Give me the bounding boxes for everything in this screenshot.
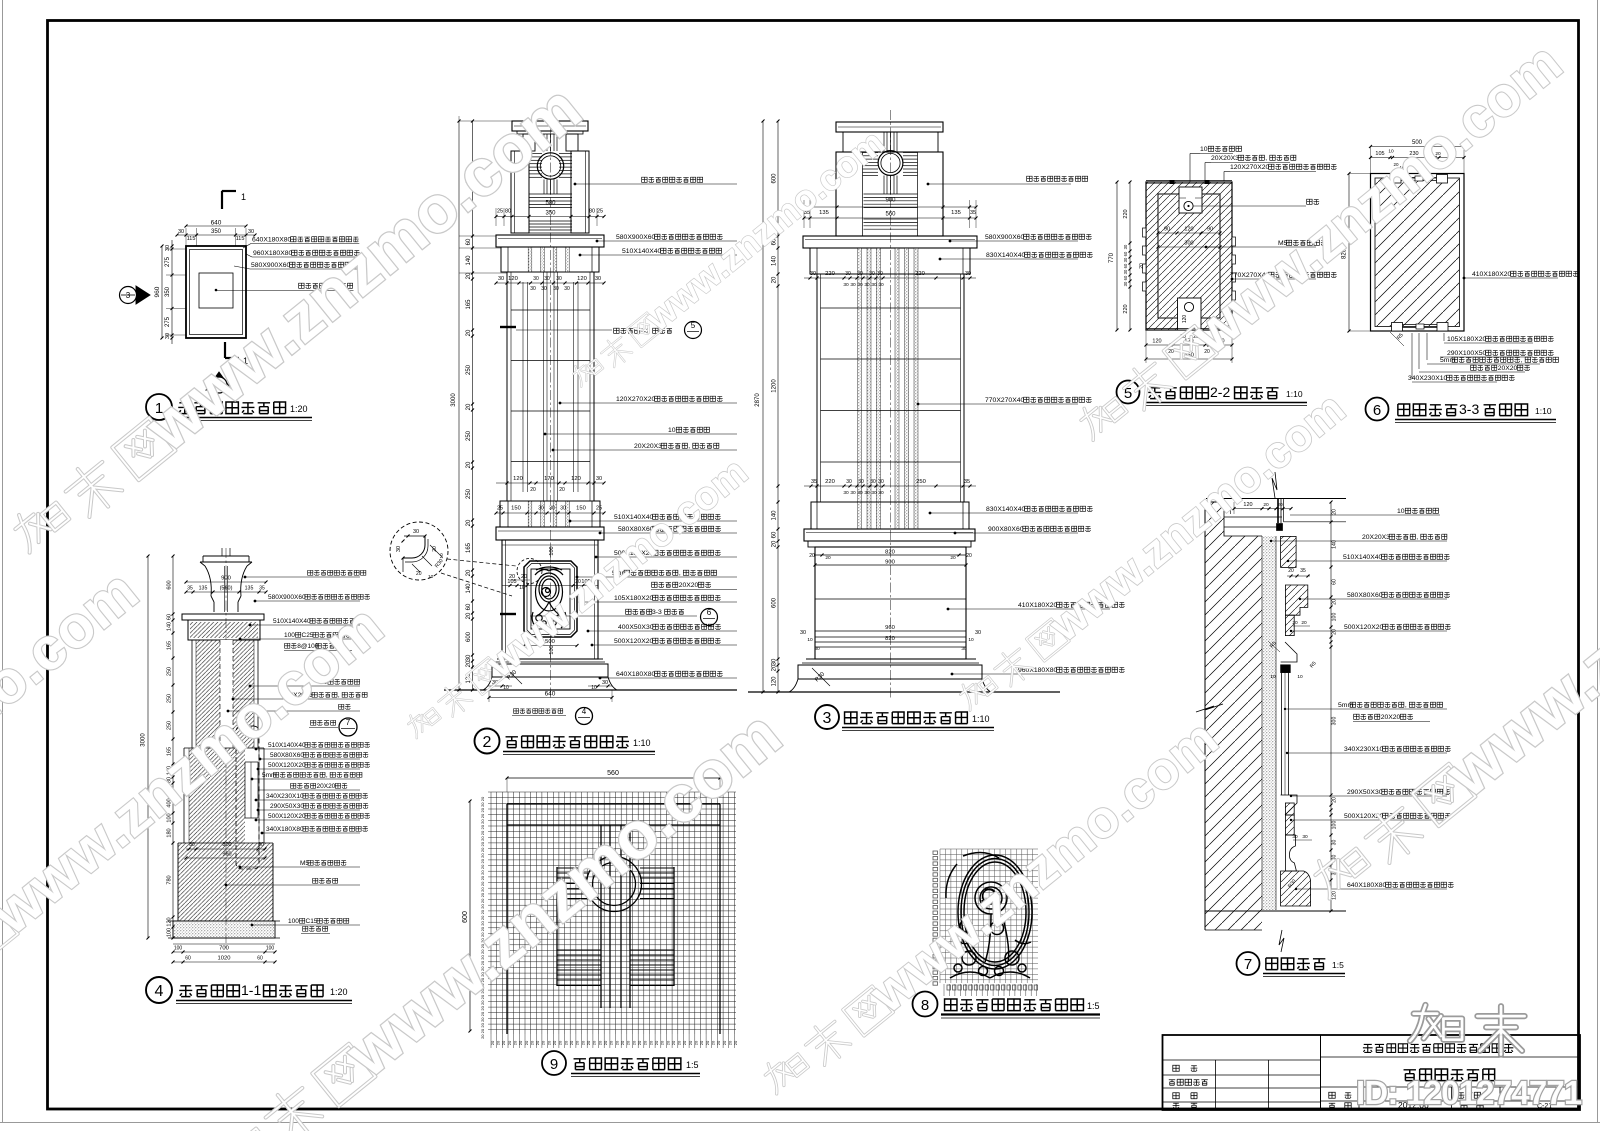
svg-text:30: 30 [814,646,820,652]
svg-text:30: 30 [498,276,504,282]
svg-text:10: 10 [968,637,974,643]
view2 left dimension chain outer 3000 [458,121,460,690]
view2 dim row at shaft bottom [496,482,604,484]
svg-text:5mm: 5mm [262,772,276,779]
svg-text:,: , [326,772,328,779]
svg-text:600: 600 [167,580,173,589]
svg-text:25: 25 [497,209,503,215]
view2 plinth R30 label [504,666,522,684]
view2 title text te-se-deng-zhu-zheng-li-mian-tu 1:10 [506,736,629,748]
view2 leader 120X270X20 facing [559,402,562,405]
view5 title circle 5 [1117,381,1140,404]
view1 top dim 640 [186,225,246,227]
svg-text:20: 20 [637,1040,642,1045]
outer thin page edge lines [2,0,4,1123]
svg-text:30: 30 [530,286,536,292]
watermark band E center-right [949,382,1355,724]
view4 bottom dim rows [173,951,275,953]
view2 leader 500X120X20 facing2 [591,644,594,647]
view6 top dim 500 [1371,146,1465,148]
svg-text:20: 20 [480,853,485,858]
svg-text:1:10: 1:10 [1535,406,1552,416]
svg-text:350: 350 [165,286,171,297]
view7 moulding 290 band [1285,803,1294,815]
view7 leader 500X120X20 [1290,630,1292,632]
svg-text:640X180X80: 640X180X80 [1347,882,1387,889]
svg-text:6: 6 [707,608,712,617]
svg-text:25: 25 [497,506,503,512]
svg-text:30: 30 [850,282,856,288]
view6 leader 290X100X50 [1440,356,1533,358]
view2 shaft outer walls [506,272,508,501]
svg-text:60: 60 [466,238,472,245]
svg-text:30: 30 [466,654,472,661]
view1 leader finished lamp shade [215,289,218,292]
svg-text:120X270X20: 120X270X20 [616,396,656,403]
svg-text:20: 20 [496,1040,501,1045]
view2 head belt stripes lower [529,220,572,222]
svg-text:20: 20 [490,1040,495,1045]
svg-text:30: 30 [857,271,863,277]
svg-text:20: 20 [535,1040,540,1045]
svg-text:,: , [338,692,340,699]
svg-text:140: 140 [466,583,472,594]
view6 interior hatch [1376,179,1460,327]
svg-text:30: 30 [843,282,849,288]
view2 center axis dash-dot line [550,110,552,700]
view3 pedestal [815,547,966,659]
svg-text:30: 30 [541,286,547,292]
view6 leader 105X180X20 [1444,342,1533,344]
view2 shaft inner panel verticals [522,282,524,492]
svg-text:35: 35 [1300,568,1306,574]
svg-text:20: 20 [546,1040,551,1045]
view4 leader 290X50X30 [257,809,260,812]
svg-text:20: 20 [432,546,438,552]
view3 leader 830X140X40 facing [939,258,942,261]
svg-text:90: 90 [1164,227,1170,233]
svg-text:3000: 3000 [141,733,147,747]
view1 leader 640X180X80 gold trim [243,244,251,249]
view5 title underline [1146,402,1307,404]
svg-text:140: 140 [167,622,173,631]
svg-text:120: 120 [772,676,778,687]
view7 leader 20X20X3 tube [1270,540,1272,542]
svg-text:30: 30 [869,271,875,277]
view5 bottom dim rows [1146,344,1232,346]
view2 head stem below circle [543,180,545,195]
svg-text:60: 60 [772,531,778,538]
view3 title underline [842,727,994,729]
view2 panel ornament scrolls [532,567,566,628]
svg-text:30: 30 [595,276,601,282]
svg-text:20: 20 [1332,797,1338,803]
title block label xiao he [1173,1093,1179,1099]
svg-text:275: 275 [165,316,171,327]
svg-text:30: 30 [1123,269,1128,274]
svg-text:30: 30 [857,282,863,288]
view4 leader welded tube [258,789,360,791]
svg-text:20: 20 [665,1040,670,1045]
view7 bottom break spike [1279,930,1284,952]
svg-text:580X900X60: 580X900X60 [268,594,306,601]
svg-text:20: 20 [716,1040,721,1045]
view5 outer rect [1146,182,1232,330]
svg-text:ID: 1201274771: ID: 1201274771 [1356,1074,1582,1111]
svg-text:350: 350 [545,211,556,217]
view3 head stripes beside circle [863,152,879,154]
svg-text:2870: 2870 [755,393,761,407]
svg-text:30: 30 [850,490,856,496]
view4 leader 340X230X10 [255,799,258,802]
view2 leader lamp tube [551,461,701,463]
svg-text:20: 20 [563,1040,568,1045]
view7 top dim row 120 20 20 [1234,508,1291,510]
svg-text:20: 20 [480,864,485,869]
svg-text:20: 20 [728,1040,733,1045]
svg-text:580X80X60: 580X80X60 [1347,592,1383,599]
svg-text:340X230X10: 340X230X10 [266,793,304,800]
svg-text:1:5: 1:5 [686,1060,699,1070]
view2 head belt stripes upper [529,193,572,195]
svg-text:800: 800 [222,842,231,848]
svg-text:580X80X60: 580X80X60 [270,752,304,759]
svg-text:20: 20 [688,1040,693,1045]
view4 title underline [176,1000,352,1002]
view2 cap neck left block [523,134,535,151]
svg-text:2: 2 [483,734,492,751]
view2 head right column [571,151,589,233]
view5 leader 770X270X40 facing [1231,278,1234,281]
svg-text:,: , [1405,702,1407,709]
svg-text:960: 960 [885,625,895,631]
view4 top dims 900 560 [186,581,266,583]
view2 head lamp circle [537,153,563,179]
view3 dim row below sub box [804,277,976,279]
view2 plinth mouldings [497,658,603,660]
svg-text:640X180X80: 640X180X80 [616,671,656,678]
svg-text:20: 20 [586,1040,591,1045]
svg-text:700: 700 [219,946,229,952]
view6 bottom leader drop lines [1411,333,1413,378]
svg-text:20: 20 [480,813,485,818]
view2 leader 10 thick stone [544,433,547,436]
view2 cap top plate [512,121,588,131]
view3 shaft [816,274,818,502]
view5 left dim chain 770 [1116,182,1118,330]
view2 ornate panel octagonal frame [524,561,577,637]
view2 left dimension chain segments [472,121,474,690]
svg-text:20: 20 [1332,509,1338,515]
svg-text:960X180X80: 960X180X80 [253,250,293,257]
svg-text:820: 820 [885,636,895,642]
view1 side section marker 3 diamond [136,286,150,304]
view8 gray grid [940,849,1038,983]
svg-text:140: 140 [772,510,778,521]
view4 slab under shade [182,614,264,620]
svg-text:100: 100 [266,946,275,952]
svg-text:10: 10 [428,574,434,580]
view5 inner rect [1158,194,1220,318]
title block drawing name te se deng zhu xiang tu [1404,1069,1495,1081]
view5 leader lamp tube [1193,205,1306,207]
svg-text:20: 20 [480,1022,485,1027]
title block she ji hao label [1458,1092,1481,1098]
view7 leader 5mm steel plate 2 lines [1284,708,1286,710]
title block outer box [1163,1035,1581,1110]
view7 base 640 band hatched [1281,871,1311,906]
svg-text:,: , [1521,357,1523,364]
title block label shen he [1173,1103,1180,1109]
svg-text:1:20: 1:20 [330,987,348,997]
view7 right finish slab top [1283,499,1285,522]
view4 dashed detail region box [236,726,259,869]
view7 leader 500X120X20 lower [1290,819,1292,821]
view4 leader 500X120X20 [257,768,260,771]
view2 leader section 3-3 callout [530,615,697,617]
svg-text:135: 135 [199,586,208,592]
svg-text:5mm: 5mm [1338,702,1353,709]
svg-text:,: , [688,443,690,450]
view3 sub box [810,248,970,274]
svg-text:20: 20 [660,1040,665,1045]
svg-text:20: 20 [558,1040,563,1045]
svg-text:340X230X10: 340X230X10 [1408,375,1448,382]
svg-text:275: 275 [165,256,171,267]
view2 head columns inner lines [514,151,516,233]
view7 leader 640X180X80 [1295,888,1297,890]
svg-text:20: 20 [529,1040,534,1045]
view1 top dim segments 30 115 350 115 30 [176,234,179,237]
svg-text:140: 140 [1332,540,1338,549]
svg-text:30: 30 [165,333,171,339]
svg-text:600: 600 [466,631,472,642]
svg-text:2-2: 2-2 [1210,384,1230,400]
view1 plan outer rect double line [186,246,246,338]
svg-text:400X50X30: 400X50X30 [618,624,654,631]
svg-text:120: 120 [577,276,587,282]
svg-text:3-3: 3-3 [1459,401,1479,417]
view6 leader 340X230X10 [1412,381,1497,383]
svg-text:10: 10 [1270,674,1276,680]
svg-text:120: 120 [167,917,173,926]
svg-text:30: 30 [877,271,883,277]
svg-text:20: 20 [552,1040,557,1045]
svg-text:30: 30 [961,646,967,652]
svg-text:100: 100 [174,946,183,952]
view9 title circle 9 [542,1051,566,1075]
svg-text:20: 20 [772,664,778,671]
svg-text:35: 35 [811,479,817,485]
view7 chamfer bottom of recess [1281,795,1297,815]
view7 moulding 510 band hatched [1281,536,1297,567]
svg-text:20: 20 [631,1040,636,1045]
svg-text:560: 560 [885,212,896,218]
view4 leader 100 C15 concrete [251,924,254,927]
view4 leader M5 mortar [239,866,242,869]
view4 title text [179,985,239,997]
svg-text:20: 20 [654,1040,659,1045]
svg-text:1-1: 1-1 [241,982,261,998]
svg-text:20: 20 [480,802,485,807]
view2 panel dim row 105 10 20 105 [502,585,598,587]
title block verticals [1320,1035,1322,1110]
svg-text:30: 30 [596,476,602,482]
svg-text:640: 640 [545,691,556,698]
view5 top recess with lamp tube [1179,187,1202,213]
view3 leader 960X180X80 trim [951,673,954,676]
view3 cap stem lines [883,132,885,152]
svg-text:290X50X30: 290X50X30 [1347,789,1383,796]
svg-text:30: 30 [560,506,566,512]
view8 title underline [941,1013,1100,1015]
view7 title circle 7 [1237,952,1260,975]
svg-text:20: 20 [518,1040,523,1045]
svg-text:3-3: 3-3 [652,609,662,616]
view2 title circle 2 [475,729,500,754]
svg-text:4: 4 [155,983,164,1000]
svg-text:20: 20 [809,553,815,559]
view5 bottom recess [1178,298,1202,330]
view6 bottom bracket [1392,323,1403,332]
svg-text:30: 30 [165,245,171,251]
svg-text:340X230X10: 340X230X10 [1344,746,1384,753]
svg-text:30: 30 [413,529,419,535]
view2 leader 580X80X60 trim [599,532,602,535]
svg-text:25: 25 [597,209,603,215]
svg-text:105X180X20: 105X180X20 [614,595,654,602]
svg-text:20: 20 [603,1040,608,1045]
svg-text:1:20: 1:20 [290,404,308,414]
view5 left wall notches [1143,228,1147,237]
view3 base mouldings [806,658,976,660]
view2 base capital box [500,501,600,527]
svg-text:30: 30 [878,282,884,288]
svg-text:1:10: 1:10 [972,714,990,724]
view1 left dim segments 30 275 350 275 30 [171,245,174,248]
svg-text:7: 7 [1244,956,1252,973]
view3 ground line [748,691,1060,693]
view6 top bracket [1390,175,1401,184]
svg-text:20: 20 [524,1040,529,1045]
view4 leader rammed earth [303,926,328,931]
view7 title underline [1263,973,1345,975]
svg-text:140: 140 [772,255,778,266]
svg-text:20: 20 [1332,629,1338,635]
svg-text:140: 140 [466,255,472,266]
view2 panel dim 500 [524,645,577,647]
svg-text:960: 960 [222,852,231,858]
view1 title text te-se-deng-zhu-ping-mian-tu 1:20 [178,402,285,414]
view4 leader 20X20X3 tube [232,698,235,701]
svg-text:350: 350 [211,229,222,235]
svg-text:20: 20 [699,1040,704,1045]
svg-text:220: 220 [915,271,925,277]
view2 head left column [511,151,529,233]
view7 cove moulding profile [1285,835,1296,871]
view3 leader 580X900X60 coping [949,240,952,243]
view9 title underline [571,1073,700,1075]
svg-text:20: 20 [597,1040,602,1045]
svg-text:20X20X3: 20X20X3 [634,443,662,450]
watermark band G bottom-right [1299,416,1600,918]
view9 top dim 560 [507,777,720,779]
svg-text:20: 20 [416,571,422,577]
view4 leader 510X140X40 [249,624,252,627]
svg-text:,: , [679,570,681,577]
svg-text:220: 220 [825,479,835,485]
svg-text:300: 300 [1184,241,1193,247]
view6 title text [1398,404,1457,416]
svg-text:1200: 1200 [772,379,778,393]
svg-text:60: 60 [1123,275,1128,280]
view4 footing bottom line [173,943,275,945]
view1 section cut mark 1 bottom [224,342,226,358]
svg-text:20: 20 [501,1040,506,1045]
view9 left dim 600 [469,801,471,1031]
svg-text:30: 30 [800,630,806,636]
svg-text:1:10: 1:10 [1286,389,1303,399]
view7 moulding 500 band lower [1285,815,1294,835]
svg-text:80: 80 [505,209,511,215]
view2 leader 580X900X60 coping [596,240,599,243]
view2 base capital dim row [496,512,604,514]
view2 leader 400X50X30 trim [587,630,590,633]
svg-text:20: 20 [1139,263,1145,269]
view3 base R30 [812,668,830,686]
svg-text:30: 30 [864,282,870,288]
view6 wall ring [1375,178,1460,327]
view4 head box hatch [190,622,258,638]
view1 leader 960X180X80 gold trim [246,254,252,257]
view4 shaft walls [191,640,193,748]
svg-text:20: 20 [614,1040,619,1045]
svg-text:770: 770 [1109,252,1115,263]
svg-text:250: 250 [916,479,926,485]
svg-text:960: 960 [154,286,161,297]
svg-text:20: 20 [466,329,472,336]
title block bi li label [1329,1092,1335,1098]
view4 leader 5mm galvanized steel [251,778,254,781]
view5 top finish lines [1146,180,1232,182]
svg-text:25: 25 [596,506,602,512]
view3 head belt stripes [864,193,918,195]
svg-text:60: 60 [466,603,472,610]
svg-text:165: 165 [466,542,472,553]
svg-text:20: 20 [620,1040,625,1045]
view7 bottom surface line [1205,910,1346,912]
svg-text:20: 20 [480,847,485,852]
view4 lamp shade stem [224,566,226,612]
view3 center axis dash-dot [890,110,892,700]
view8 left fringe marks [933,851,938,985]
svg-text:10: 10 [1297,674,1303,680]
view1 leader 580X900X60 gold coping [234,266,250,269]
svg-text:35: 35 [964,479,970,485]
view4 left dim chain outer 3000 [147,556,149,938]
view4 footing stipple band [173,921,275,938]
view9 pattern stripe group lower [557,949,601,951]
view2 leader 105X180X20 facing [579,601,582,604]
view3 left dim chain segments [777,121,779,692]
title block label she ji [1173,1065,1179,1071]
svg-text:30: 30 [858,479,864,485]
svg-text:580X900X60: 580X900X60 [251,262,291,269]
svg-text:20: 20 [466,612,472,619]
view7 top finish layer [1224,516,1282,518]
svg-text:30: 30 [975,630,981,636]
view4 leader buried cable [225,884,228,887]
